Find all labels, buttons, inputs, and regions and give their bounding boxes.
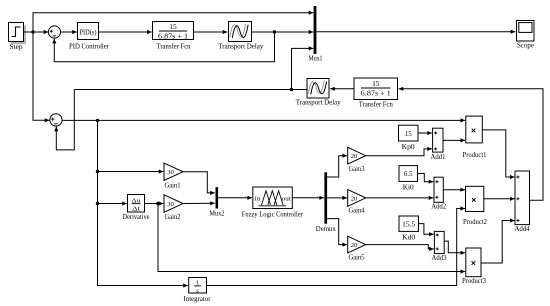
svg-text:Scope: Scope [517, 41, 535, 50]
svg-text:6.5: 6.5 [404, 170, 413, 178]
product block Product3 [462, 248, 486, 285]
wire plant output up to Mux1 input 3 [292, 46, 314, 89]
wire derivative signal down and right to Product3 input 2 [158, 204, 465, 274]
svg-text:out: out [282, 196, 291, 202]
wire Kd0 to Add3 input 1 [419, 224, 434, 237]
svg-text:Step: Step [10, 42, 23, 51]
svg-text:15: 15 [405, 130, 413, 138]
svg-text:Gain4: Gain4 [349, 206, 365, 215]
svg-text:Mux2: Mux2 [209, 209, 224, 218]
wire top feedforward to Mux1 input 1 [33, 11, 313, 32]
wire PID Controller to Transfer Fcn [99, 30, 152, 34]
svg-text:Gain1: Gain1 [165, 181, 181, 190]
wire Add3 to Product3 input 1 [444, 241, 465, 255]
svg-text:Transfer Fcn: Transfer Fcn [157, 42, 191, 51]
node branch derivative signal [156, 202, 159, 205]
wire Fuzzy Logic Controller to Demux [292, 196, 324, 200]
product block Product2 [463, 186, 487, 226]
gain block Gain2 value 30 [164, 195, 183, 221]
svg-text:Mux1: Mux1 [309, 54, 323, 63]
node branch plant output [290, 88, 293, 91]
svg-text:Transport Delay: Transport Delay [296, 98, 341, 107]
integrator block 1/s [184, 278, 211, 303]
wire Demux output 2 to Gain4 [327, 196, 347, 200]
svg-text:PID(s): PID(s) [80, 28, 98, 36]
svg-text:30: 30 [167, 169, 174, 176]
wire Add1 to Product1 input 2 [443, 138, 465, 142]
svg-text:Kd0: Kd0 [402, 233, 415, 242]
svg-text:Add4: Add4 [515, 224, 530, 233]
svg-text:Ki0: Ki0 [403, 183, 414, 192]
product block Product1 [463, 116, 487, 159]
wire to Derivative [98, 201, 127, 205]
wire Ki0 to Add2 input 1 [418, 174, 434, 184]
svg-text:Transfer Fcn: Transfer Fcn [359, 100, 393, 109]
fuzzy logic controller block [242, 187, 303, 219]
wire left branch down to Sum2 [33, 32, 49, 122]
transport delay block Transport Delay [218, 22, 263, 51]
wire Mux2 to Fuzzy Logic Controller [218, 196, 252, 200]
wire to Gain1 [98, 169, 164, 173]
wire Demux output 3 to Gain5 [327, 219, 347, 247]
svg-text:Gain2: Gain2 [165, 212, 181, 221]
mux Mux1 [309, 6, 323, 63]
svg-text:20: 20 [351, 195, 358, 202]
transport delay block Transport Delay1 flipped [296, 79, 341, 107]
svg-text:Gain3: Gain3 [349, 164, 365, 173]
svg-text:Add2: Add2 [431, 202, 446, 211]
wire Gain4 to Add2 input 2 [366, 196, 434, 200]
svg-text:30: 30 [167, 201, 174, 208]
transfer function block Transfer Fcn1 15/(6.87s+1) flipped [354, 78, 398, 109]
wire error signal Sum2 to Product1 input 1 [62, 118, 465, 122]
wire plant feedback into Sum2 minus input [54, 90, 74, 150]
constant block Kp0 value 15 [399, 125, 419, 151]
wire Transfer Fcn to Transport Delay [194, 30, 228, 34]
wire Step to Sum1 [24, 30, 49, 34]
summing junction Sum1 [48, 26, 60, 38]
wire Product2 to Add4 input 2 [484, 197, 515, 201]
svg-text:15.5: 15.5 [402, 220, 416, 228]
wire Gain2 to Mux2 input 2 [183, 201, 215, 205]
node error branch [96, 119, 99, 122]
constant block Ki0 value 6.5 [399, 166, 418, 192]
wire Kp0 to Add1 input 1 [418, 131, 432, 135]
wire Gain3 to Add1 input 2 [366, 147, 432, 156]
mux Mux2 [209, 187, 224, 217]
sink block Scope [517, 21, 535, 50]
svg-text:PID Controller: PID Controller [69, 42, 109, 51]
wire Product1 to Add4 input 1 [482, 130, 514, 179]
svg-text:Integrator: Integrator [184, 294, 211, 303]
svg-text:Derivative: Derivative [123, 212, 151, 221]
svg-text:Product3: Product3 [462, 276, 486, 285]
transfer function block Transfer Fcn 15/(6.87s+1) [153, 22, 194, 51]
source block Step [9, 23, 26, 52]
wire Product3 to Add4 input 3 [481, 218, 515, 263]
wire Transport Delay1 output to feedback/Mux1 [74, 89, 307, 91]
wire Transport Delay to Mux1 input 2 [252, 30, 314, 34]
gain block Gain5 value 20 [348, 236, 366, 261]
wire Derivative to Gain2 [145, 201, 164, 205]
summing junction Sum2 [50, 114, 62, 126]
svg-text:in: in [255, 196, 261, 202]
sum block Add4 [515, 171, 530, 233]
svg-text:15: 15 [169, 22, 177, 31]
wire error vertical trunk down to Integrator [98, 120, 188, 287]
wire Gain1 to Mux2 input 1 [183, 172, 215, 195]
svg-text:Fuzzy Logic Controller: Fuzzy Logic Controller [242, 210, 303, 219]
derivative block Derivative du/dt [123, 195, 151, 222]
node branch at Step output [31, 30, 34, 33]
svg-text:Transport Delay: Transport Delay [218, 42, 263, 51]
wire Gain5 to Add3 input 2 [366, 245, 434, 251]
svg-text:Product2: Product2 [463, 217, 487, 226]
constant block Kd0 value 15.5 [399, 216, 419, 242]
wire Add4 output up and left into Transfer Fcn1 (flipped) [399, 87, 543, 201]
svg-text:Gain5: Gain5 [349, 253, 365, 262]
wire Add2 to Product2 input 1 [443, 188, 465, 192]
wire Demux output 1 to Gain3 [327, 154, 347, 177]
node branch to Gain1 [96, 170, 99, 173]
wire feedback loop 1 to Sum1 minus input [52, 32, 274, 62]
svg-text:20: 20 [351, 242, 358, 249]
sum block Add2 [431, 177, 446, 210]
svg-text:Add3: Add3 [432, 253, 447, 262]
wire Integrator to Product2 input 2 [207, 206, 466, 285]
sum block Add1 [431, 128, 446, 161]
svg-text:6.87s + 1: 6.87s + 1 [158, 31, 188, 40]
node branch at Transport Delay output [273, 30, 276, 33]
demux Demux [316, 172, 336, 233]
node branch to Derivative [96, 202, 99, 205]
PID controller block U: PID(s) [69, 23, 109, 51]
wire Mux1 to Scope [316, 30, 515, 34]
sum block Add3 [432, 231, 447, 262]
svg-text:15: 15 [372, 79, 380, 88]
svg-text:Product1: Product1 [463, 150, 487, 159]
svg-text:Add1: Add1 [431, 152, 446, 161]
svg-text:Kp0: Kp0 [402, 142, 415, 151]
gain block Gain4 value 20 [348, 190, 366, 215]
wire Sum1 to PID Controller [61, 30, 77, 34]
svg-text:20: 20 [351, 153, 358, 160]
gain block Gain1 value 30 [164, 163, 183, 190]
svg-text:Demux: Demux [316, 224, 336, 233]
gain block Gain3 value 20 [348, 147, 366, 173]
wire Transfer Fcn1 to Transport Delay1 [330, 87, 354, 91]
svg-text:6.87s + 1: 6.87s + 1 [361, 89, 391, 98]
